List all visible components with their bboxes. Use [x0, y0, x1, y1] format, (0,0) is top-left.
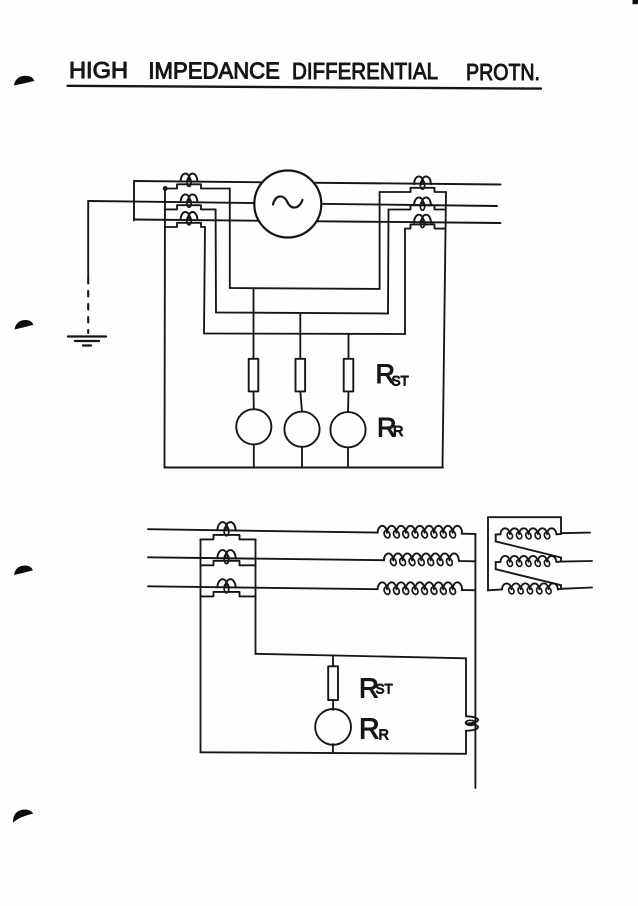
page mark: scan corner blotch — [633, 0, 638, 4]
CT5 secondary bracket — [389, 205, 446, 209]
wire: bottom common bus — [165, 467, 444, 469]
wire: branch 2 mid lead — [300, 391, 302, 411]
wire: branch 3 mid lead — [347, 391, 350, 412]
page mark: punch-hole crescent 4 — [13, 810, 33, 823]
resistor Rst (lower) — [328, 666, 338, 700]
wire: right CT common vertical — [443, 192, 447, 468]
svg-text:R: R — [393, 424, 403, 440]
svg-text:IMPEDANCE: IMPEDANCE — [148, 58, 280, 84]
label Rst (upper) — [376, 359, 409, 389]
CT9 secondary bracket — [201, 592, 256, 597]
wire: bus phase line L2 (to earth) — [88, 201, 497, 206]
wire: relay circuit right vertical upper part — [465, 658, 467, 716]
wire: lower branch top lead — [332, 655, 334, 666]
wire: pilot link H3 — [204, 333, 405, 336]
wire: stub B to edge — [561, 560, 592, 563]
current transformer CT1 (left) — [181, 174, 198, 187]
current transformer CT8 (feeder) — [217, 550, 235, 564]
svg-text:DIFFERENTIAL: DIFFERENTIAL — [292, 58, 438, 84]
CT8 secondary bracket — [201, 561, 256, 566]
secondary coil S3 — [502, 583, 558, 594]
wire: lower CT common vertical — [200, 539, 202, 752]
CT3 secondary bracket — [165, 223, 205, 227]
resistor Rst3 (stabilising) — [344, 359, 354, 392]
svg-text:ST: ST — [392, 374, 409, 389]
CT1 secondary bracket — [165, 184, 230, 188]
current transformer CT4 (right) — [414, 176, 431, 189]
svg-text:R: R — [359, 714, 380, 746]
wire: stub A to edge — [561, 532, 590, 535]
wire: secondary box left vertical — [487, 517, 489, 590]
CT2 secondary bracket — [165, 205, 216, 209]
page mark: punch-hole crescent 3 — [14, 565, 33, 575]
secondary coil S2 — [501, 556, 557, 567]
svg-text:PROTN.: PROTN. — [466, 59, 540, 85]
title text: HIGH IMPEDANCE DIFFERENTIAL PROTN. — [69, 57, 540, 85]
current transformer CT2 (left) — [181, 194, 198, 207]
wire: branch 1 mid lead — [253, 391, 255, 409]
wire: branch 3 bottom lead — [347, 447, 349, 467]
svg-text:HIGH: HIGH — [69, 57, 128, 83]
wire: earth lead solid — [87, 201, 89, 278]
label Rr (upper) — [377, 413, 403, 443]
wire: branch 2 top lead — [299, 313, 301, 359]
resistor Rst2 (stabilising) — [296, 359, 306, 392]
current transformer CT6 (right) — [414, 215, 431, 228]
wire: bus phase line L1 — [134, 181, 501, 185]
wire: S2 leads — [556, 561, 561, 563]
page mark: punch-hole crescent 1 — [14, 76, 35, 86]
current transformer CT7 (feeder) — [217, 522, 235, 536]
junction dot CT1 bracket — [163, 187, 167, 191]
wire: relay top horizontal — [256, 654, 467, 659]
label Rr (lower) — [359, 714, 389, 746]
wire: feeder line M1 — [148, 529, 378, 532]
CT7 secondary bracket — [201, 535, 256, 540]
wire: star point earth conductor — [474, 534, 476, 788]
wire: branch 1 top lead — [253, 288, 255, 358]
winding coil W3 — [378, 582, 462, 595]
wire: left CT common vertical — [164, 189, 167, 468]
wire: CT1 phase lead down — [229, 189, 231, 289]
wire: zigzag diagonal 2 — [496, 569, 561, 585]
winding coil W2 — [384, 553, 459, 566]
wire: pilot link H2 — [216, 313, 388, 314]
current transformer CT9 (feeder) — [217, 579, 235, 593]
wire: bus phase line L3 — [134, 220, 501, 224]
relay Rr3 — [330, 412, 365, 447]
CT4 secondary bracket — [380, 188, 446, 192]
wire: pilot link H1 — [230, 287, 380, 290]
current transformer CT3 (left) — [181, 212, 198, 225]
wire: neutral link vertical joining L1-L3 — [133, 181, 135, 221]
current transformer CT5 (right) — [414, 197, 431, 210]
wire: lower branch bottom lead — [332, 744, 334, 753]
wire: feeder line M3 — [148, 586, 378, 589]
wire: CT2 phase lead down — [215, 209, 217, 312]
wire: branch 3 top lead — [348, 334, 350, 359]
label Rst (lower) — [359, 673, 393, 704]
wire: stub C to edge — [561, 588, 592, 589]
wire: zigzag diagonal 1 — [496, 541, 561, 557]
wire: lower bottom bus — [201, 752, 467, 754]
title underline — [68, 86, 542, 89]
secondary coil S1 — [501, 528, 557, 539]
wire: relay circuit right vertical lower part — [465, 731, 467, 754]
svg-text:R: R — [379, 728, 389, 744]
earth-conductor CT bulge — [466, 716, 478, 730]
generator sine symbol — [273, 196, 303, 207]
relay Rr1 — [236, 409, 271, 444]
wire: CT4 phase lead down — [379, 192, 381, 289]
wire: earth lead dashed — [87, 278, 89, 333]
relay Rr2 — [284, 412, 319, 447]
wire: CT5 phase lead down — [387, 210, 390, 314]
wire: lower CT phase vertical — [255, 539, 257, 653]
wire: M3 to star bus — [462, 589, 476, 591]
wire: M2 to star bus — [459, 560, 476, 562]
wire: branch 1 bottom lead — [253, 444, 255, 467]
winding coil W1 — [378, 526, 462, 539]
wire: CT3 phase lead down — [204, 227, 205, 334]
wire: feeder line M2 — [148, 557, 384, 560]
page mark: punch-hole crescent 2 — [15, 320, 34, 330]
wire: S3 leads — [558, 588, 561, 591]
CT6 secondary bracket — [405, 224, 445, 228]
generator G (AC source) — [254, 171, 321, 238]
wire: branch 2 bottom lead — [301, 447, 303, 468]
relay Rr (lower) — [315, 709, 351, 745]
wire: lower branch mid lead — [332, 700, 334, 710]
wire: M1 to star bus — [462, 533, 476, 535]
wire: secondary box top link — [488, 516, 561, 518]
wire: secondary box right drop — [560, 517, 562, 534]
resistor Rst1 (stabilising) — [249, 359, 259, 392]
wire: S1 leads — [556, 533, 561, 535]
svg-text:ST: ST — [376, 682, 393, 697]
ground symbol — [68, 337, 106, 346]
wire: CT6 phase lead down — [404, 229, 406, 334]
